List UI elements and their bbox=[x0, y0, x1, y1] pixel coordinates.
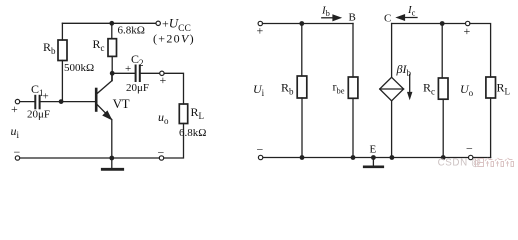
svg-text:+: + bbox=[125, 63, 131, 75]
node junction source bottom bbox=[390, 155, 395, 160]
node input terminal bbox=[15, 99, 19, 103]
node input bottom terminal bbox=[15, 156, 19, 160]
node junction Rc bottom bbox=[441, 155, 446, 160]
wire: right circuit bottom rail bbox=[263, 157, 469, 159]
svg-text:C: C bbox=[384, 13, 391, 25]
wire: right circuit collector rail bbox=[392, 23, 466, 25]
node junction Rc top bbox=[440, 21, 445, 26]
svg-text:+: + bbox=[43, 91, 49, 103]
svg-text:20μF: 20μF bbox=[126, 82, 149, 94]
node bottom right terminal bbox=[469, 155, 473, 159]
ground bbox=[102, 158, 122, 169]
svg-text:6.8kΩ: 6.8kΩ bbox=[179, 127, 206, 139]
resistor Rc bbox=[108, 23, 117, 80]
svg-text:Ui: Ui bbox=[253, 82, 265, 98]
node output bottom terminal bbox=[159, 156, 163, 160]
resistor RL (model) bbox=[486, 77, 496, 158]
node junction top rail / Rc bbox=[109, 21, 114, 26]
svg-text:Ib: Ib bbox=[321, 5, 330, 19]
svg-text:−: − bbox=[257, 143, 264, 157]
svg-text:−: − bbox=[158, 146, 165, 160]
svg-text:Ic: Ic bbox=[407, 4, 416, 18]
wire: B corner down to rbe bbox=[352, 24, 354, 78]
svg-text:(+20V): (+20V) bbox=[153, 32, 195, 46]
svg-text:RL: RL bbox=[191, 105, 205, 121]
svg-text:6.8kΩ: 6.8kΩ bbox=[118, 25, 145, 37]
resistor rbe bbox=[348, 77, 358, 158]
node junction collector / C2 tap bbox=[110, 71, 115, 76]
wire Ib arrow bbox=[322, 15, 342, 21]
svg-text:Rc: Rc bbox=[423, 81, 435, 97]
svg-text:Rb: Rb bbox=[43, 40, 56, 56]
svg-text:RL: RL bbox=[497, 81, 511, 97]
capacitor C2 bbox=[112, 66, 159, 82]
capacitor C1 bbox=[20, 96, 61, 109]
dependent source beta-Ib bbox=[380, 75, 412, 101]
node bottom left terminal bbox=[258, 155, 262, 159]
node junction Rb top bbox=[299, 21, 304, 26]
node junction Rb bottom bbox=[300, 155, 305, 160]
svg-text:+: + bbox=[257, 24, 264, 38]
wire: to RL bbox=[164, 73, 183, 104]
resistor Rb bbox=[58, 23, 67, 101]
node junction emitter / ground bbox=[109, 156, 114, 161]
svg-text:Rc: Rc bbox=[93, 37, 105, 53]
transistor VT bbox=[96, 73, 112, 158]
svg-text:+: + bbox=[160, 73, 167, 87]
node junction rbe bottom bbox=[351, 155, 356, 160]
resistor Rb (model) bbox=[297, 24, 307, 158]
svg-text:−: − bbox=[466, 142, 473, 156]
svg-text:VT: VT bbox=[113, 96, 130, 111]
svg-text:ui: ui bbox=[11, 124, 20, 140]
node output top terminal bbox=[160, 71, 164, 75]
svg-text:Rb: Rb bbox=[281, 81, 294, 97]
svg-text:−: − bbox=[14, 145, 21, 159]
node E junction bbox=[371, 155, 376, 160]
wire: left circuit top rail bbox=[62, 22, 155, 24]
wire: left circuit bottom rail bbox=[20, 157, 160, 159]
svg-text:B: B bbox=[349, 12, 356, 24]
resistor RL bbox=[164, 104, 188, 158]
wire: C corner bbox=[391, 24, 393, 78]
node right circuit input + terminal bbox=[258, 21, 262, 25]
resistor Rc (model) bbox=[438, 24, 448, 158]
wire Ic arrow bbox=[396, 14, 417, 20]
svg-text:500kΩ: 500kΩ bbox=[64, 62, 94, 74]
watermark CSDN bbox=[438, 157, 514, 168]
svg-text:E: E bbox=[370, 144, 377, 156]
svg-text:Uo: Uo bbox=[460, 82, 474, 98]
svg-text:+: + bbox=[464, 24, 471, 38]
svg-text:20μF: 20μF bbox=[27, 109, 50, 121]
wire: right circuit base rail bbox=[263, 23, 354, 25]
node output + terminal (model) bbox=[466, 21, 470, 25]
svg-text:βIb: βIb bbox=[396, 62, 412, 78]
svg-text:+: + bbox=[11, 102, 18, 116]
svg-text:uo: uo bbox=[158, 110, 169, 126]
svg-text:C2: C2 bbox=[131, 52, 144, 68]
wire: to RL (model) bbox=[470, 24, 491, 78]
wire: bottom rail right of terminal bbox=[473, 157, 491, 159]
wire: source bottom bbox=[391, 101, 393, 158]
wire: base bbox=[61, 101, 95, 103]
node junction Rb / C1 / base bbox=[59, 99, 64, 104]
ground (model) bbox=[364, 158, 383, 167]
node supply terminal bbox=[156, 21, 160, 25]
svg-text:rbe: rbe bbox=[333, 80, 345, 96]
